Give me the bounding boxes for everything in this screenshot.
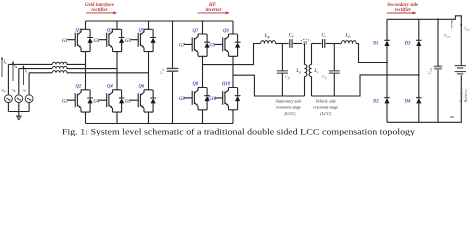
svg-text:G7: G7 (179, 44, 185, 49)
wire phase c line (29, 72, 148, 74)
coil Lp (295, 44, 307, 97)
mutual coupling M (301, 39, 311, 46)
inductor Lfp (261, 41, 276, 44)
svg-text:ia: ia (4, 60, 7, 65)
transistor Q2 (67, 84, 93, 112)
svg-text:vc: vc (23, 87, 27, 93)
svg-text:G10: G10 (208, 97, 217, 102)
header secondary side rectifier (387, 3, 419, 14)
svg-text:vb: vb (12, 87, 16, 93)
current arrow ib (12, 61, 14, 81)
battery (455, 66, 466, 75)
svg-text:G5: G5 (125, 39, 131, 44)
svg-text:Q10: Q10 (222, 82, 231, 87)
wire primary bottom rail (282, 95, 304, 97)
wire secondary rail to rectifier top (356, 44, 387, 63)
svg-text:G1: G1 (62, 39, 68, 44)
wire DC bottom bus (86, 123, 234, 125)
wire secondary rail to Lfs (326, 43, 341, 45)
ground (16, 116, 22, 119)
wire secondary rectifier top bus (387, 16, 461, 66)
svg-text:va: va (2, 87, 6, 93)
wire rectifier D-leg1 (386, 19, 388, 122)
svg-text:D3: D3 (404, 41, 411, 46)
transistor Q6 (130, 84, 156, 112)
svg-text:Q2: Q2 (76, 84, 82, 89)
diode D1 (372, 40, 390, 46)
inductor Lfs (341, 41, 356, 44)
diode D4 (404, 98, 422, 105)
svg-text:Q1: Q1 (76, 29, 82, 34)
transistor Q8 (184, 82, 210, 110)
svg-text:Q8: Q8 (193, 82, 199, 87)
svg-text:resonant stage: resonant stage (313, 105, 338, 110)
svg-text:Cp: Cp (289, 33, 294, 38)
inductor line filter a (52, 62, 67, 64)
current arrow ic (22, 65, 24, 85)
svg-text:Q9: Q9 (223, 29, 229, 34)
svg-text:(LCC): (LCC) (285, 111, 297, 116)
svg-text:Ls: Ls (313, 69, 319, 74)
wire riser phase c (28, 73, 30, 95)
svg-text:Q4: Q4 (107, 84, 113, 89)
wire primary rail to Lp (293, 43, 302, 45)
svg-text:Cs: Cs (322, 33, 327, 38)
transistor Q10 (215, 82, 241, 110)
svg-text:Cfs: Cfs (322, 74, 328, 80)
wire secondary bottom rail (312, 75, 419, 96)
svg-text:Ibat: Ibat (463, 26, 470, 32)
node rectifier tap1 (386, 62, 388, 64)
AC source vc (25, 95, 33, 103)
svg-text:Vout: Vout (444, 33, 451, 39)
capacitor Cp series (289, 33, 294, 48)
capacitor Cfs (322, 44, 340, 97)
transistor Q7 (184, 29, 210, 56)
svg-text:D4: D4 (404, 99, 411, 104)
voltage arrow Vout (444, 20, 453, 39)
svg-text:Lfp: Lfp (264, 34, 271, 39)
capacitor Cfp (277, 44, 291, 97)
capacitor Cdc (159, 21, 178, 124)
wire DC top bus (86, 20, 234, 22)
wire rectifier leg1 (85, 21, 87, 124)
label tractive battery (459, 88, 468, 103)
current arrow Ibat (460, 24, 470, 31)
wire inverter leg1 (202, 21, 204, 124)
wire secondary rectifier bottom bus (387, 75, 461, 122)
wire inverter output bottom (233, 75, 282, 96)
diode D3 (404, 40, 422, 46)
svg-text:rectifier: rectifier (395, 8, 411, 13)
svg-text:D2: D2 (372, 99, 379, 104)
svg-text:Battery: Battery (463, 89, 468, 102)
svg-text:Fig. 1: System level schematic: Fig. 1: System level schematic of a trad… (62, 127, 416, 137)
transistor Q1 (67, 29, 93, 52)
wire source drops to neutral bus (8, 103, 29, 112)
svg-text:(LCC): (LCC) (320, 111, 332, 116)
capacitor Cout (427, 19, 442, 122)
wire riser phase a (7, 64, 9, 94)
wire inverter output top (203, 44, 261, 65)
current arrow ia (1, 57, 3, 77)
wire primary rail to series cap (276, 43, 289, 45)
svg-text:G3: G3 (94, 39, 100, 44)
transistor Q4 (99, 84, 125, 112)
svg-text:Vehicle side: Vehicle side (316, 99, 336, 104)
inductor line filter b (52, 66, 67, 68)
svg-text:Q7: Q7 (193, 29, 199, 34)
svg-text:Cout: Cout (427, 67, 433, 74)
AC source vb (15, 95, 23, 103)
wire inverter leg2 (232, 21, 234, 124)
capacitor Cs series (322, 33, 327, 48)
node Cout tap (437, 18, 439, 20)
svg-text:Q3: Q3 (107, 29, 113, 34)
svg-text:D1: D1 (372, 41, 379, 46)
svg-text:Stationary side: Stationary side (276, 99, 302, 104)
AC source va (4, 95, 12, 103)
wire rectifier leg2 (116, 21, 118, 124)
svg-text:G9: G9 (210, 44, 216, 49)
svg-text:Q5: Q5 (139, 29, 145, 34)
svg-text:G8: G8 (179, 97, 185, 102)
transistor Q9 (215, 29, 241, 56)
label stationary side resonant stage (276, 99, 302, 117)
svg-text:ib: ib (14, 64, 17, 69)
svg-text:G4: G4 (94, 99, 100, 104)
svg-text:Cfp: Cfp (285, 74, 291, 80)
svg-text:ic: ic (25, 69, 28, 74)
coil Ls (309, 44, 319, 97)
wire ground stem (18, 112, 20, 117)
svg-text:G6: G6 (125, 99, 131, 104)
label vehicle side resonant stage (313, 99, 338, 117)
wire phase b line (19, 68, 117, 70)
wire rectifier D-leg2 (418, 19, 420, 122)
transistor Q5 (130, 29, 156, 52)
svg-text:G2: G2 (62, 99, 68, 104)
svg-text:Lp: Lp (295, 69, 301, 74)
wire riser phase b (18, 69, 20, 95)
svg-text:Cdc: Cdc (159, 67, 165, 74)
wire rectifier leg3 (148, 21, 150, 124)
svg-text:Q6: Q6 (139, 84, 145, 89)
svg-text:resonant stage: resonant stage (276, 105, 301, 110)
header grid interface rectifier (85, 3, 117, 14)
header HF inverter (198, 3, 230, 14)
svg-text:M: M (302, 41, 308, 46)
transistor Q3 (99, 29, 125, 52)
wire secondary rail Ls to Cs (312, 43, 322, 45)
wire phase a line (8, 63, 85, 65)
svg-text:Lfs: Lfs (345, 34, 352, 39)
node rectifier tap2 (418, 74, 420, 76)
inductor line filter c (52, 71, 67, 73)
diode D2 (372, 98, 390, 105)
battery minus sign (450, 116, 454, 118)
